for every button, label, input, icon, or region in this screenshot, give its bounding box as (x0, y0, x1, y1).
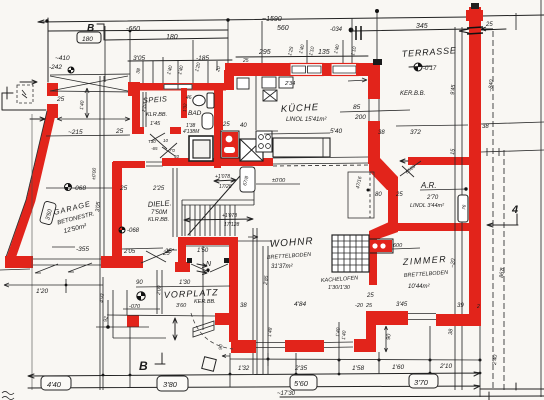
wall vorplatz left foot (175, 262, 190, 272)
wall A.R. south / Zimmer north (398, 223, 469, 231)
dashed verticals x493 x504 (492, 31, 494, 390)
wall step leg (366, 322, 376, 341)
wall vorplatz left leg (178, 245, 186, 263)
survey point -068 garage (65, 184, 72, 191)
svg-text:10'44m²: 10'44m² (408, 284, 430, 290)
dim verticals x100 x104 (100, 76, 104, 390)
dimension line 180 (105, 38, 228, 40)
dashed understair rect (348, 172, 374, 218)
wall kitchen east upper (368, 63, 380, 99)
inner edge line vorplatz (186, 245, 229, 247)
svg-text:B: B (139, 359, 148, 373)
left edge plus mark (2, 87, 13, 99)
dim pair below vorplatz left leg (157, 270, 162, 314)
door swing A.R. (400, 161, 421, 177)
door jambs vorplatz (187, 258, 192, 263)
horizontal line y270 left (0, 269, 30, 270)
svg-text:-068: -068 (73, 185, 86, 192)
svg-text:-65: -65 (151, 146, 158, 151)
bottom dim line y360 (230, 359, 480, 360)
svg-text:345: 345 (416, 23, 428, 30)
dim box 560 (290, 375, 317, 390)
svg-text:25: 25 (365, 303, 373, 309)
svg-text:86'8: 86'8 (499, 267, 506, 279)
svg-text:31'37m²: 31'37m² (271, 264, 293, 270)
wall A.R. north (408, 157, 469, 165)
svg-text:-20: -20 (355, 303, 364, 309)
svg-text:~20: ~20 (450, 257, 457, 268)
door swing SPEIS (150, 133, 167, 149)
svg-text:39: 39 (457, 303, 464, 309)
wall main right top cap (466, 10, 483, 21)
left small lines (2, 80, 46, 121)
dashed vertical x32 (31, 114, 33, 390)
svg-text:SPEIS: SPEIS (143, 94, 168, 105)
svg-text:25: 25 (56, 96, 65, 103)
kitchen south opening lines (273, 157, 368, 164)
wall SPEIS/BAD divider (181, 88, 187, 118)
dim vertical x352 (351, 18, 353, 63)
svg-text:7'0: 7'0 (169, 148, 175, 153)
bathtub BAD (202, 113, 213, 129)
svg-text:1'32: 1'32 (238, 366, 250, 372)
dimension line 305/-185 (128, 60, 232, 61)
survey point -034 (349, 28, 354, 33)
rotated door leaf square (202, 357, 217, 372)
horizontal line y277 (4, 279, 103, 293)
svg-text:-034: -034 (330, 27, 343, 33)
door swing BAD (160, 143, 177, 158)
svg-text:3'80: 3'80 (163, 380, 178, 389)
stove burners (256, 131, 272, 152)
wall jog AR to Zimmer (369, 222, 398, 239)
dim vertical extras (143, 61, 217, 84)
dim vertical x130 (129, 32, 131, 83)
svg-text:1'32: 1'32 (182, 103, 188, 112)
svg-text:KLR.BB.: KLR.BB. (148, 217, 169, 223)
kitchen small X box (263, 90, 277, 101)
dim vertical x262 (261, 21, 263, 63)
bottom dim line y374 (28, 372, 480, 378)
svg-text:BAD: BAD (188, 110, 202, 117)
svg-text:-0'17: -0'17 (423, 66, 437, 72)
svg-text:4'84: 4'84 (294, 301, 306, 308)
svg-text:180: 180 (82, 36, 93, 43)
wall north SPEIS segment 2 (193, 83, 226, 91)
svg-text:372: 372 (410, 129, 421, 136)
section hatch marks before terrace wall (356, 26, 361, 40)
window SPEIS north (163, 84, 193, 91)
svg-text:LINOL 15'41m²: LINOL 15'41m² (286, 117, 327, 123)
svg-text:2: 2 (476, 304, 480, 310)
svg-text:1'40: 1'40 (341, 330, 348, 340)
terrace dim 85/200 (340, 110, 410, 112)
svg-text:DIELE.: DIELE. (148, 198, 172, 209)
porch dim line y119 (57, 117, 130, 121)
svg-text:2'25: 2'25 (152, 186, 165, 192)
wall SPEIS west (132, 96, 140, 134)
door gap diele west (146, 162, 163, 166)
svg-text:1'45: 1'45 (150, 121, 161, 127)
svg-text:3'70: 3'70 (414, 378, 429, 387)
wall step bottom right of vorplatz (231, 340, 256, 353)
wall porch left pillar (47, 83, 58, 96)
svg-text:-068: -068 (127, 228, 140, 234)
svg-text:17/128: 17/128 (224, 222, 240, 228)
dim line at y136 (46, 135, 130, 136)
survey point -068 hall (119, 227, 125, 233)
wall A.R. west (388, 178, 398, 230)
stairs arrow lower (184, 217, 253, 222)
dim vertical x193 (192, 40, 194, 83)
svg-text:1'48: 1'48 (267, 327, 274, 337)
wall step connector (224, 70, 234, 90)
wall vorplatz bump (215, 313, 230, 325)
small arrow line into east wall (348, 78, 367, 82)
label 132 arrow (222, 355, 230, 358)
svg-text:1'40: 1'40 (79, 100, 86, 110)
svg-text:90: 90 (218, 344, 224, 350)
svg-text:560: 560 (277, 25, 289, 32)
window kitchen north 1 (290, 64, 323, 76)
wall Zimmer west (369, 234, 377, 285)
dimension line kitchen 295 135 (236, 56, 368, 57)
svg-text:1'30/1'30: 1'30/1'30 (328, 285, 351, 291)
stairs landing lines (182, 167, 254, 236)
wall zimmer south (366, 311, 408, 325)
svg-text:46: 46 (186, 95, 192, 101)
wall north kitchen mullion (322, 63, 331, 76)
wall wohn south left segment (285, 340, 324, 352)
svg-text:KER.BB.: KER.BB. (194, 299, 216, 305)
dim box 380 (157, 376, 188, 391)
dimension line 345 terrace (353, 29, 506, 31)
wall garage east (112, 162, 122, 257)
svg-text:±0'00: ±0'00 (272, 178, 286, 184)
dim vertical x105 (104, 26, 106, 82)
kachelofen tiled stove (332, 235, 369, 272)
svg-text:180: 180 (166, 34, 178, 41)
dim verticals x455 x462 (455, 27, 462, 390)
dim pair left of stairs (173, 168, 177, 237)
kitchen counter boxes along north wall (237, 78, 249, 89)
dim vertical x307 (306, 40, 308, 63)
small arrows vorplatz (197, 264, 207, 275)
dashed box left (17, 85, 33, 103)
wall garage west diagonal (11, 110, 52, 258)
svg-text:7'50M: 7'50M (151, 210, 167, 216)
svg-text:-185: -185 (196, 55, 209, 62)
svg-text:40: 40 (240, 123, 247, 129)
right edge vertical (540, 0, 542, 397)
svg-text:5'60: 5'60 (294, 379, 309, 388)
svg-text:+1'078: +1'078 (215, 174, 230, 180)
wall SPEIS south (133, 127, 144, 134)
door leaves V (191, 264, 228, 272)
svg-text:~1590: ~1590 (262, 16, 282, 23)
svg-text:135: 135 (318, 49, 330, 56)
wall hall south (101, 256, 143, 268)
svg-text:2'05: 2'05 (123, 249, 136, 255)
dim vertical x48 (47, 18, 49, 82)
svg-text:2'34: 2'34 (284, 81, 295, 87)
kitchen counter edge (255, 76, 257, 130)
svg-text:3'05: 3'05 (133, 55, 145, 62)
tilde marks bottom left (2, 392, 14, 400)
svg-text:80: 80 (375, 192, 382, 198)
svg-text:10: 10 (163, 138, 169, 143)
svg-text:85: 85 (353, 104, 361, 111)
rotated box 3,50 garage (39, 201, 56, 225)
wall kitchen east lower (368, 121, 380, 164)
stairs arrow upper (214, 178, 236, 183)
door gap kitchen-terrace (369, 99, 379, 121)
svg-text:3'05: 3'05 (95, 201, 102, 213)
svg-text:KER.B.B.: KER.B.B. (400, 91, 425, 97)
svg-text:-660: -660 (126, 26, 140, 33)
svg-text:-355: -355 (76, 246, 89, 253)
svg-text:600: 600 (393, 243, 403, 249)
dim pair x263 x268 (263, 246, 268, 374)
svg-text:200: 200 (354, 114, 366, 121)
wall step bar (354, 339, 376, 352)
svg-text:25: 25 (119, 185, 128, 192)
shower X box (240, 139, 263, 161)
small lines near stair block (96, 290, 215, 338)
dim pair inside SPEIS (143, 92, 146, 127)
wall main right (469, 7, 481, 326)
stairs upper flight treads (185, 205, 235, 236)
garage west wall outer edge line (6, 111, 47, 257)
wall zimmer south right (436, 314, 479, 326)
wall north kitchen corner (356, 63, 372, 76)
svg-text:T30: T30 (148, 139, 156, 144)
window kitchen north 2 (331, 64, 358, 76)
svg-text:92: 92 (103, 316, 109, 322)
svg-text:1'58: 1'58 (352, 365, 364, 372)
svg-text:90: 90 (136, 280, 143, 286)
bottom right corner lines (280, 383, 544, 400)
stair block outside left (127, 315, 139, 327)
svg-text:+1'078: +1'078 (222, 213, 237, 219)
wall diele/kitchen south (162, 158, 273, 166)
dim vertical x343 (342, 40, 344, 63)
black cap terrace wall top (373, 59, 382, 65)
svg-text:2'85: 2'85 (263, 275, 270, 286)
kitchen table (273, 138, 330, 157)
svg-text:2'40: 2'40 (492, 354, 499, 367)
dimension line overall top ~1590 (38, 15, 544, 22)
porch vertical arrow (85, 88, 89, 118)
svg-text:17/28: 17/28 (219, 184, 232, 190)
toilet BAD (207, 93, 214, 108)
dim vertical x228 (227, 20, 229, 64)
dimension line -660 (48, 30, 228, 31)
svg-text:1'20: 1'20 (36, 288, 48, 295)
svg-text:25: 25 (366, 293, 374, 299)
svg-text:40: 40 (174, 154, 180, 159)
window zimmer south (408, 314, 436, 320)
dim vertical x163 (162, 57, 164, 84)
wall vorplatz right leg (229, 244, 238, 342)
stove red block (221, 131, 239, 158)
chimney block zimmer (367, 239, 393, 253)
svg-text:38: 38 (482, 124, 489, 130)
wall diele north west part (113, 161, 145, 168)
dim line right y151 (481, 148, 544, 156)
porch canopy lines (50, 74, 130, 92)
svg-text:4'40: 4'40 (47, 380, 62, 389)
svg-text:5'40: 5'40 (330, 128, 342, 135)
svg-text:25: 25 (222, 122, 230, 128)
svg-text:A.R.: A.R. (420, 181, 437, 190)
junction dots top line (45, 19, 48, 22)
wall porch right pillar / SPEIS west top (128, 82, 140, 96)
entry steps parallelogram (193, 321, 214, 337)
tick on top line near x516 (515, 13, 517, 30)
svg-text:±0'00: ±0'00 (91, 167, 98, 180)
svg-text:KÜCHE: KÜCHE (281, 102, 320, 115)
entry door swing dashed (191, 313, 233, 349)
svg-text:295: 295 (258, 49, 271, 56)
wall north SPEIS segment (138, 83, 164, 91)
wall vorplatz top bar (178, 237, 238, 245)
svg-text:~215: ~215 (68, 129, 83, 136)
svg-text:1'30: 1'30 (179, 280, 191, 286)
wall BAD east (214, 84, 223, 130)
wall north kitchen segment 1 (225, 63, 290, 76)
svg-text:-070: -070 (129, 304, 141, 310)
svg-text:2'35: 2'35 (294, 365, 307, 372)
svg-text:1'60: 1'60 (392, 364, 404, 371)
window lines wohn south (256, 342, 353, 348)
svg-text:LINOL 3'44m²: LINOL 3'44m² (410, 203, 444, 209)
wall diagonal kitchen to AR (369, 158, 398, 190)
svg-text:38: 38 (378, 130, 385, 136)
svg-text:~840: ~840 (488, 78, 495, 92)
dim box 440 (41, 376, 71, 390)
svg-text:9'45: 9'45 (450, 84, 457, 96)
svg-text:~410: ~410 (55, 55, 70, 62)
svg-text:3'60: 3'60 (176, 303, 187, 309)
svg-text:4'93: 4'93 (99, 293, 106, 303)
svg-text:25: 25 (395, 192, 403, 198)
svg-text:2'10: 2'10 (439, 363, 452, 370)
vorplatz vertical arrow (173, 318, 177, 340)
black marks on wall top (467, 27, 483, 34)
garage door opening lines (33, 259, 101, 273)
svg-text:KLR.BB.: KLR.BB. (146, 112, 167, 118)
verticals bottom dims (103, 277, 480, 397)
svg-text:38: 38 (240, 303, 247, 309)
rounded box 180 top-left (77, 32, 101, 43)
svg-text:1'50: 1'50 (197, 248, 209, 254)
wall garage south (5, 256, 33, 268)
svg-text:2'70: 2'70 (426, 195, 439, 201)
wohn west dim pair (248, 228, 258, 374)
dim box 370 (409, 374, 438, 388)
svg-text:4'138M: 4'138M (183, 129, 200, 135)
door swing hall entry (141, 249, 174, 263)
svg-text:-242: -242 (49, 64, 62, 71)
bottom dim line y387 (28, 385, 480, 389)
svg-text:25: 25 (164, 249, 172, 255)
sink square nook (189, 136, 213, 161)
dim line right y122 (396, 122, 544, 126)
svg-text:25: 25 (115, 128, 124, 135)
svg-text:3'45: 3'45 (396, 302, 408, 308)
svg-text:~17'30: ~17'30 (277, 391, 296, 397)
center dim line vorplatz (202, 246, 204, 330)
terrace survey symbol (414, 63, 422, 71)
garage room label (53, 199, 98, 237)
svg-text:25: 25 (485, 22, 493, 28)
stairs diagonal (188, 168, 247, 235)
stair landing niche (240, 167, 255, 192)
